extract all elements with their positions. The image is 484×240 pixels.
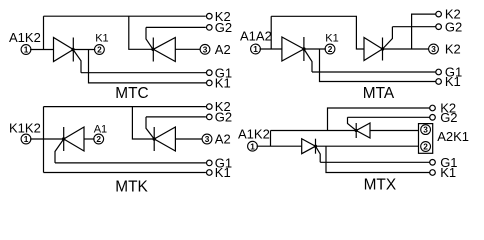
terminal G2 xyxy=(207,25,213,31)
terminal K1 xyxy=(436,79,442,85)
wire bottom rail to K1 xyxy=(44,172,206,174)
svg-text:1: 1 xyxy=(24,45,29,55)
wire G1 rail xyxy=(320,161,429,163)
terminal G1 xyxy=(436,69,442,75)
terminal G2 xyxy=(436,24,442,30)
wire G2 rail xyxy=(392,26,435,28)
wire Q2 cathode to terminal 3 xyxy=(383,48,430,50)
wire Q2 anode to terminal 3 xyxy=(175,138,202,140)
svg-text:A1K2: A1K2 xyxy=(9,30,41,45)
svg-text:A2K1: A2K1 xyxy=(437,129,469,144)
terminal 3 circled xyxy=(200,44,210,54)
wire gate Q1 xyxy=(316,146,321,162)
svg-text:K1: K1 xyxy=(325,32,338,44)
wire G1 rail xyxy=(312,71,436,73)
wire terminal1 to Q1 anode xyxy=(30,49,53,51)
terminal 3 circled xyxy=(429,44,439,54)
wire G2 rail xyxy=(348,116,430,118)
wire upper path to Q2 cathode xyxy=(271,130,357,132)
wire terminal1 to Q1 anode xyxy=(257,145,302,147)
terminal 2 circled xyxy=(95,45,105,55)
wire top rail to K2 xyxy=(44,106,206,108)
wire gate Q2 xyxy=(383,27,393,49)
wire Q2 anode to terminal 3 xyxy=(175,48,200,50)
svg-text:A1A2: A1A2 xyxy=(240,29,272,44)
thyristor Q2 xyxy=(364,38,384,61)
thyristor Q1 xyxy=(62,127,84,151)
terminal G1 xyxy=(207,70,213,76)
wire Q1 cathode to box terminal 2 xyxy=(316,145,419,147)
svg-text:2: 2 xyxy=(423,142,428,152)
svg-text:3: 3 xyxy=(203,44,208,54)
svg-text:1: 1 xyxy=(250,141,255,151)
thyristor Q1 xyxy=(302,139,317,154)
terminal 1 circled xyxy=(251,44,261,54)
wire K2 tap xyxy=(412,14,436,49)
terminal box A2K1 xyxy=(419,124,433,154)
terminal K2 xyxy=(207,13,213,19)
terminal G2 xyxy=(207,114,213,120)
terminal 1 circled xyxy=(248,141,258,151)
wire gate Q2 xyxy=(146,27,153,49)
wire top rail to K2 xyxy=(44,15,206,17)
wire G2 rail xyxy=(146,26,206,28)
thyristor Q2 xyxy=(153,127,176,151)
terminal 1 circled xyxy=(21,134,31,144)
svg-text:K1: K1 xyxy=(95,32,108,44)
terminal K1 xyxy=(430,170,436,176)
svg-text:3: 3 xyxy=(423,125,428,135)
svg-text:2: 2 xyxy=(97,45,102,55)
terminal K2 xyxy=(430,105,436,111)
wire K1 drop xyxy=(320,49,436,82)
svg-text:MTX: MTX xyxy=(364,176,397,193)
wire terminal1 to Q1 anode xyxy=(260,48,282,50)
wire K2 tap xyxy=(328,108,430,131)
terminal G2 xyxy=(430,115,436,121)
svg-text:A2: A2 xyxy=(215,42,231,57)
terminal K1 xyxy=(207,170,213,176)
terminal 3 circled xyxy=(202,134,212,144)
thyristor Q1 xyxy=(54,38,75,62)
svg-text:K1: K1 xyxy=(215,76,231,91)
svg-text:K2: K2 xyxy=(445,42,461,57)
thyristor Q2 xyxy=(355,123,370,138)
wire gate Q2 xyxy=(146,117,154,139)
svg-text:MTK: MTK xyxy=(115,179,148,196)
terminal 1 circled xyxy=(21,45,31,55)
thyristor Q2 xyxy=(151,38,175,62)
wire mid drop from top rail xyxy=(129,16,153,49)
wire G2 rail xyxy=(146,116,206,118)
wire gate Q1 xyxy=(304,49,312,72)
terminal K1 xyxy=(207,80,213,86)
svg-text:A2: A2 xyxy=(215,132,231,147)
svg-text:A1K2: A1K2 xyxy=(238,127,270,142)
svg-text:G2: G2 xyxy=(215,110,232,125)
wire top rail xyxy=(271,16,364,49)
terminal G1 xyxy=(207,160,213,166)
svg-text:K1: K1 xyxy=(440,165,456,180)
thyristor Q1 xyxy=(282,37,306,61)
terminal K2 xyxy=(207,104,213,110)
svg-text:G1: G1 xyxy=(215,156,232,171)
svg-text:MTC: MTC xyxy=(115,85,148,102)
wire G1 rail xyxy=(81,72,206,74)
terminal 2 circled (in box) xyxy=(421,142,431,152)
svg-text:G2: G2 xyxy=(215,20,232,35)
wire Q1 anode to terminal 2 xyxy=(84,138,95,140)
wire riser top rail to bottom rail xyxy=(43,107,45,173)
wire gate Q1 xyxy=(73,50,81,73)
wire riser to top rail xyxy=(43,16,45,49)
svg-text:2: 2 xyxy=(328,44,333,54)
wire Q1 cathode to terminal 2 xyxy=(304,48,326,50)
wire terminal1 to Q1 cathode xyxy=(30,138,64,140)
svg-text:2: 2 xyxy=(96,134,101,144)
svg-text:3: 3 xyxy=(205,134,210,144)
svg-text:MTA: MTA xyxy=(363,85,395,102)
svg-text:G2: G2 xyxy=(440,110,457,125)
svg-text:3: 3 xyxy=(431,44,436,54)
wire Q2 anode to box terminal 3 xyxy=(370,130,419,132)
terminal 3 circled (in box) xyxy=(421,125,431,135)
svg-text:1: 1 xyxy=(24,134,29,144)
svg-text:1: 1 xyxy=(253,44,258,54)
terminal G1 xyxy=(430,160,436,166)
wire Q1 cathode to terminal 2 xyxy=(73,49,95,51)
wire riser to top rail xyxy=(270,16,272,49)
wire K1 drop xyxy=(326,146,430,172)
wire G1 rail xyxy=(55,162,206,164)
wire mid drop from top rail xyxy=(132,107,154,139)
terminal K2 xyxy=(436,11,442,17)
svg-text:G2: G2 xyxy=(445,19,462,34)
wire gate Q2 xyxy=(348,117,357,130)
wire gate Q1 xyxy=(55,139,64,163)
terminal 2 circled xyxy=(325,44,335,54)
wire K1 drop xyxy=(89,50,207,83)
wire riser to upper path xyxy=(270,131,272,147)
terminal 2 circled xyxy=(94,134,104,144)
svg-text:K1: K1 xyxy=(445,74,461,89)
